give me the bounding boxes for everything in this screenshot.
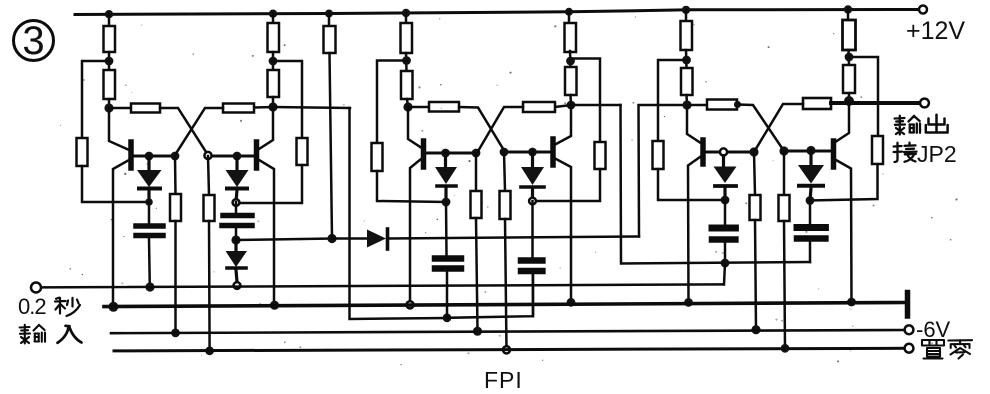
node A4 junction dot <box>566 57 575 66</box>
transistor Q3 collector lead <box>408 107 421 148</box>
node: rail junction dots <box>105 5 852 18</box>
node B12 dot <box>806 146 815 155</box>
+12V supply rail <box>75 10 919 15</box>
node trigger junction circle <box>529 198 536 205</box>
wire input bus (line 1) <box>42 284 724 287</box>
transistor Q2 base bar <box>254 142 260 168</box>
diode D7 <box>714 156 737 200</box>
wire trigger riser <box>621 105 811 264</box>
node B2 dot <box>171 152 180 161</box>
wire + cross diagonal <box>738 105 785 152</box>
label Chinese 'jie' (connect) <box>894 143 917 162</box>
node pull-up dot <box>327 234 336 243</box>
-6V terminal <box>905 325 914 334</box>
diode D1 <box>137 156 162 202</box>
wire + cross diagonal <box>754 104 803 152</box>
diode D5 <box>435 153 457 202</box>
wire rail to R22 <box>685 10 688 21</box>
node trigger junction dot <box>806 196 815 205</box>
wire Q2 base line <box>208 155 254 158</box>
wire reset bus (line 4) <box>114 348 905 351</box>
node dot on reset bus <box>781 344 790 353</box>
resistor R13 <box>401 71 413 99</box>
label Chinese 'zhi' (reset word 1) <box>922 340 944 359</box>
output line (thick) to terminal <box>831 101 920 105</box>
svg-text:+12V: +12V <box>906 17 965 45</box>
reset terminal <box>905 344 914 353</box>
node B10 dot <box>749 147 758 156</box>
ground bar terminal <box>905 293 911 317</box>
transistor Q5 collector lead <box>687 105 700 143</box>
resistor R10 (base to reset bus) <box>204 156 215 351</box>
resistor R23 <box>681 68 693 95</box>
wire ground bus (line 2) <box>104 303 906 307</box>
label Chinese 'shu' (output word 1) <box>895 116 920 135</box>
label Chinese 'ru' (input word 2) <box>58 326 82 343</box>
transistor Q1 base bar <box>128 142 134 168</box>
wire rail to R17 <box>568 12 571 23</box>
node input-bus dot <box>145 282 154 291</box>
wire bias tap <box>849 57 878 136</box>
resistor R11 (pull-up from rail) <box>324 14 336 239</box>
wire rail to R1 <box>108 14 111 26</box>
node trigger junction dot <box>721 196 730 205</box>
node dot at resistor end <box>734 101 741 108</box>
wire <box>848 93 851 101</box>
resistor R27 <box>843 20 856 50</box>
resistor R28 <box>843 65 855 93</box>
resistor R19 (bias divider) <box>595 142 606 169</box>
transistor Q4 base bar <box>550 139 556 165</box>
node D1-C1 junction dot <box>145 198 153 206</box>
node B5 dot <box>441 149 450 158</box>
svg-text:JP2: JP2 <box>917 141 957 167</box>
resistor R22 <box>681 21 693 50</box>
node B8 dot <box>528 148 537 157</box>
capacitor C1 <box>136 202 163 287</box>
node open circle on reset bus <box>503 346 510 353</box>
wire <box>272 97 275 107</box>
node A3 junction dot <box>402 56 411 65</box>
wire stage1 output tap <box>273 107 350 108</box>
node B6 dot <box>472 149 481 158</box>
resistor R9 (cross-coupling) <box>254 106 273 109</box>
wire Q4 base line <box>504 151 551 154</box>
node trigger rail dot <box>443 313 452 322</box>
node B7 dot <box>500 148 509 157</box>
wire Q6 base line <box>784 150 831 153</box>
node open circle on input bus <box>234 282 241 289</box>
node E6 emitter dot on ground bus <box>847 298 856 307</box>
node B1 dot <box>145 152 154 161</box>
wire <box>405 53 408 71</box>
node E2 emitter dot on ground bus <box>270 301 279 310</box>
wire <box>685 95 688 105</box>
wire bias down left <box>533 169 601 201</box>
wire + cross diagonal <box>175 108 223 155</box>
node dot on reset bus <box>205 346 214 355</box>
resistor R25 (cross-coupling) <box>687 104 707 107</box>
resistor R26 (base bias to -6V) <box>750 152 761 330</box>
label Chinese 'chu' (output word 2) <box>926 115 948 133</box>
resistor R3 (bias divider) <box>77 138 88 166</box>
wire Q3 base line <box>426 152 477 155</box>
capacitor C5 <box>712 200 737 263</box>
node E4 emitter dot on ground bus <box>567 298 576 307</box>
wire Q5 base line <box>705 151 754 154</box>
wire bias tap <box>658 60 687 141</box>
wire <box>108 52 111 70</box>
svg-text:3: 3 <box>22 19 44 63</box>
node C1 collector node dot <box>104 103 113 112</box>
wire rail to R6 <box>272 14 275 23</box>
wire bias tap right <box>273 61 302 138</box>
label Chinese 'shu' (input word 1) <box>20 325 45 344</box>
output terminal <box>920 99 929 108</box>
node trigger junction dot <box>442 198 451 207</box>
wire bias tap left <box>82 61 109 138</box>
diode D4 (coupling, pointing right) <box>332 229 639 249</box>
transistor Q6 emitter lead <box>836 160 852 302</box>
wire + cross-coupling diagonal <box>160 108 208 155</box>
wire bias tap <box>377 61 407 144</box>
node C2 collector node dot <box>268 102 277 111</box>
resistor R20 (cross-coupling) <box>555 105 571 107</box>
node dot on -6V bus <box>751 325 760 334</box>
wire bias down and right <box>82 166 149 202</box>
diode D3 (to input bus) <box>226 240 248 282</box>
wire <box>108 99 111 108</box>
wire down to input bus end <box>724 263 725 285</box>
transistor Q3 base bar <box>421 141 427 167</box>
node E3 emitter circle on ground bus <box>406 301 413 308</box>
wire trigger rail to right cap <box>447 275 533 318</box>
node C4 collector node dot <box>567 101 576 110</box>
node B3 dot <box>204 152 211 159</box>
wire trigger line to pull-up <box>236 239 332 241</box>
node B11 dot <box>779 146 788 155</box>
diode D2 <box>226 156 249 202</box>
capacitor C4 (hatched) <box>521 201 543 316</box>
transistor Q4 emitter lead <box>556 159 571 302</box>
node A2 junction dot <box>269 57 278 66</box>
node coupling junction dot <box>231 235 240 244</box>
wire bias down right <box>658 169 725 200</box>
wire <box>272 52 275 70</box>
node E5 emitter dot on ground bus <box>684 298 693 307</box>
resistor R2 (collector load lower) <box>104 70 116 99</box>
transistor Q6 base bar <box>831 141 837 167</box>
node A1 junction dot <box>105 57 114 66</box>
wire -6V bus (line 3) <box>111 330 905 333</box>
resistor R18 <box>565 67 577 95</box>
resistor R5 (base bias to -6V) <box>170 156 181 333</box>
node dot on -6V bus <box>171 329 180 338</box>
node A6 junction dot <box>845 53 854 62</box>
transistor Q2 emitter lead <box>259 160 274 305</box>
resistor R6 <box>268 23 280 52</box>
wire bias down right <box>377 171 446 202</box>
wire + cross diagonal <box>478 107 524 152</box>
wire rail to R27 <box>847 10 850 21</box>
wire rail to R12 <box>405 13 408 23</box>
resistor R16 (base bias to -6V) <box>471 153 482 331</box>
svg-text:-6V: -6V <box>916 317 951 342</box>
svg-text:0.2: 0.2 <box>18 294 46 319</box>
node B9 open circle <box>720 148 727 155</box>
node trigger junction circle <box>233 199 240 206</box>
resistor R30 (cross-coupling) <box>803 98 831 109</box>
resistor R4 (cross-coupling) <box>109 107 131 110</box>
resistor R1 (collector load upper) <box>104 26 116 52</box>
diode D6 <box>521 152 544 201</box>
transistor Q1 collector lead <box>109 108 129 150</box>
resistor R21 (base to reset bus) <box>500 152 511 350</box>
transistor Q4 collector lead <box>556 105 571 144</box>
wire <box>569 51 572 67</box>
transistor Q6 collector lead <box>836 101 849 142</box>
capacitor C6 <box>797 201 826 263</box>
resistor R24 (bias divider) <box>653 141 664 169</box>
wire <box>569 95 572 105</box>
wire trigger riser <box>350 108 448 319</box>
resistor R31 (base to reset bus) <box>779 151 790 348</box>
transistor Q2 collector lead <box>259 107 273 149</box>
resistor R17 <box>565 23 577 52</box>
resistor R29 (bias divider) <box>872 136 883 164</box>
capacitor C3 (hatched) <box>435 202 461 318</box>
input terminal (0.2s input) <box>31 283 41 293</box>
diode D8 <box>798 151 824 201</box>
resistor R8 (bias divider) <box>297 138 308 165</box>
node E1 emitter dot on ground bus <box>108 302 118 312</box>
transistor Q5 emitter lead <box>688 157 700 302</box>
transistor Q1 emitter lead <box>113 160 129 305</box>
resistor R15 (cross-coupling) <box>408 106 429 109</box>
wire Q1 base line <box>133 155 175 158</box>
wire feedback riser to stage3 collector <box>639 105 688 237</box>
wire bias down and left <box>236 165 302 203</box>
node C3 collector node dot <box>403 102 412 111</box>
wire <box>407 99 408 107</box>
transistor Q3 emitter lead <box>410 159 421 302</box>
svg-text:FPI: FPI <box>484 367 523 393</box>
resistor R12 <box>401 23 413 53</box>
node B4 dot <box>233 152 242 161</box>
capacitor C2 <box>222 202 252 240</box>
resistor R7 <box>268 70 280 97</box>
wire + cross diagonal <box>459 107 505 152</box>
wire bias down left <box>810 164 878 201</box>
label Chinese 'miao' (seconds) <box>55 298 80 316</box>
label Chinese 'ling' (reset word 2) <box>948 340 972 358</box>
wire <box>685 50 688 68</box>
resistor R14 (bias divider) <box>372 143 383 171</box>
transistor Q5 base bar <box>700 140 706 164</box>
node C6 collector node dot <box>844 96 854 106</box>
node C5 collector node dot <box>682 100 691 109</box>
wire bias tap <box>571 59 601 143</box>
wire stage2 output tap <box>571 104 621 107</box>
node dot on -6V bus <box>473 327 482 336</box>
node trigger rail dot <box>721 259 730 268</box>
wire <box>847 50 850 65</box>
circled figure number 3 <box>14 19 54 63</box>
+12V terminal <box>919 6 927 14</box>
node A5 junction dot <box>682 56 691 65</box>
